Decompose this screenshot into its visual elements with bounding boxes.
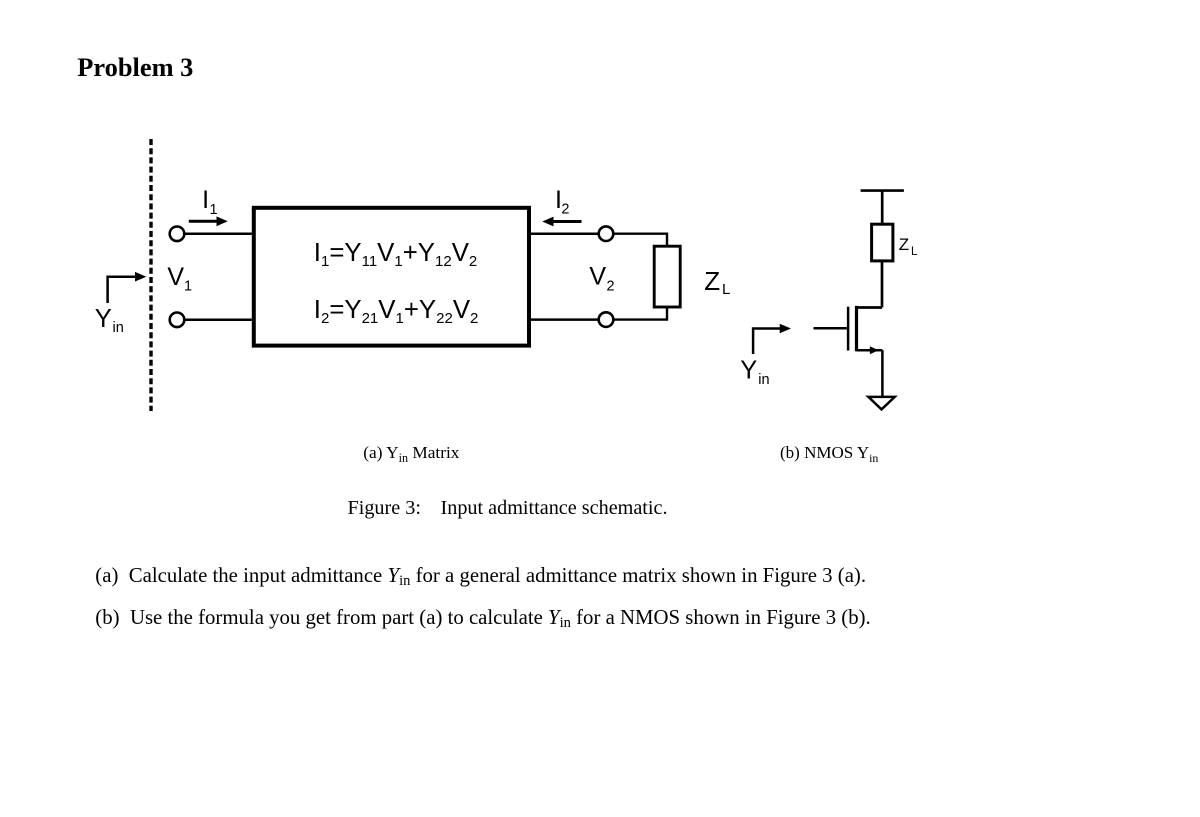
- svg-text:I: I: [202, 186, 209, 214]
- item (a): [95, 566, 866, 587]
- svg-text:Y: Y: [95, 305, 112, 333]
- svg-text:in: in: [758, 372, 769, 388]
- svg-text:V: V: [589, 263, 606, 291]
- arrow I1: [189, 220, 218, 223]
- svg-text:Z: Z: [704, 266, 720, 296]
- svg-text:V: V: [167, 263, 184, 291]
- svg-text:2: 2: [607, 278, 615, 294]
- Yin arrow (b): [753, 329, 780, 355]
- wire T4 to load: [613, 307, 667, 320]
- channel bar Q1: [855, 306, 858, 351]
- svg-text:L: L: [911, 246, 918, 258]
- svg-text:in: in: [113, 320, 124, 336]
- wire rail to ZL: [881, 191, 884, 225]
- svg-text:Y: Y: [740, 357, 757, 385]
- source lead Q1 with arrow: [857, 349, 883, 352]
- VDD rail: [861, 189, 904, 192]
- resistor ZL (a): [654, 246, 680, 307]
- wire port2 top left: [531, 232, 599, 235]
- wire port2 bottom left: [531, 318, 599, 321]
- reference plane dashed line: [149, 139, 152, 411]
- wire source to ground: [881, 350, 884, 397]
- subcaption (b): [780, 444, 878, 461]
- two-port box U1: [254, 208, 529, 346]
- Yin arrow (a): [108, 277, 136, 303]
- svg-text:1: 1: [184, 278, 192, 294]
- gate bar Q1: [847, 307, 850, 351]
- svg-text:Z: Z: [899, 235, 909, 254]
- item (b): [95, 608, 870, 629]
- wire port1 top: [184, 233, 252, 236]
- figure caption: [348, 498, 668, 518]
- wire T3 to load: [613, 234, 667, 247]
- arrow I2: [552, 220, 582, 223]
- terminal T2: [170, 313, 185, 328]
- gate lead Q1: [814, 327, 847, 330]
- svg-text:2: 2: [561, 202, 569, 218]
- terminal T4: [599, 312, 614, 327]
- ground: [868, 397, 894, 410]
- drain lead Q1: [857, 306, 883, 309]
- subcaption (a): [363, 444, 459, 461]
- terminal T1: [170, 227, 185, 242]
- heading Problem 3: [77, 54, 193, 80]
- terminal T3: [599, 226, 614, 241]
- wire ZL to drain: [881, 261, 884, 308]
- resistor ZL (b): [872, 224, 893, 261]
- svg-text:L: L: [722, 281, 730, 298]
- svg-text:1: 1: [210, 202, 218, 218]
- wire port1 bottom: [184, 319, 252, 322]
